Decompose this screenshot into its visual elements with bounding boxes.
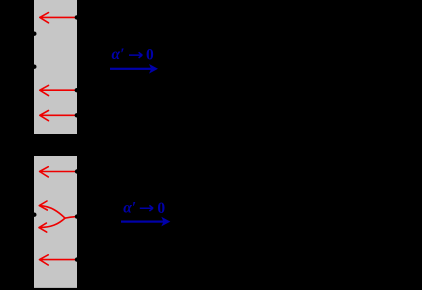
svg-text:α′: α′ [112, 46, 125, 63]
red arrow A1 (top panel, y=17.4) [40, 13, 77, 23]
red arrow A2 (top panel, y=90.2) [40, 85, 77, 95]
wall slab (top panel) [34, 0, 77, 134]
red arrow B1 (bottom panel, y=171.5) [40, 167, 77, 177]
scattering dot (top panel, left edge lower) [32, 65, 36, 69]
red arrow B3 (bottom panel, y=259.6) [40, 255, 77, 265]
red arrow A3 (top panel, y=115.3) [40, 111, 77, 121]
scattering dot (top panel, left edge upper) [32, 32, 36, 36]
svg-text:α′: α′ [123, 199, 136, 216]
scattering dot (bottom panel, right edge at B3) [75, 257, 79, 261]
blue limit arrow (top panel) [110, 64, 158, 74]
red fork arrow (bottom panel, splits from dot at right edge) [39, 201, 77, 232]
label arrow glyph (bottom panel) [140, 205, 153, 211]
scattering dot (top panel, right edge at A3) [75, 113, 79, 117]
scattering dot (top panel, right edge at A2) [75, 88, 79, 92]
blue limit arrow (bottom panel) [121, 217, 170, 227]
svg-text:0: 0 [157, 200, 165, 217]
svg-text:0: 0 [146, 46, 154, 63]
label arrow glyph (top panel) [129, 52, 142, 58]
scattering dot (bottom panel, right edge at fork) [75, 214, 79, 218]
wall slab (bottom panel) [34, 156, 77, 288]
scattering dot (bottom panel, left edge) [32, 213, 36, 217]
scattering dot (bottom panel, right edge at B1) [75, 169, 79, 173]
scattering dot (top panel, right edge at A1) [75, 15, 79, 19]
